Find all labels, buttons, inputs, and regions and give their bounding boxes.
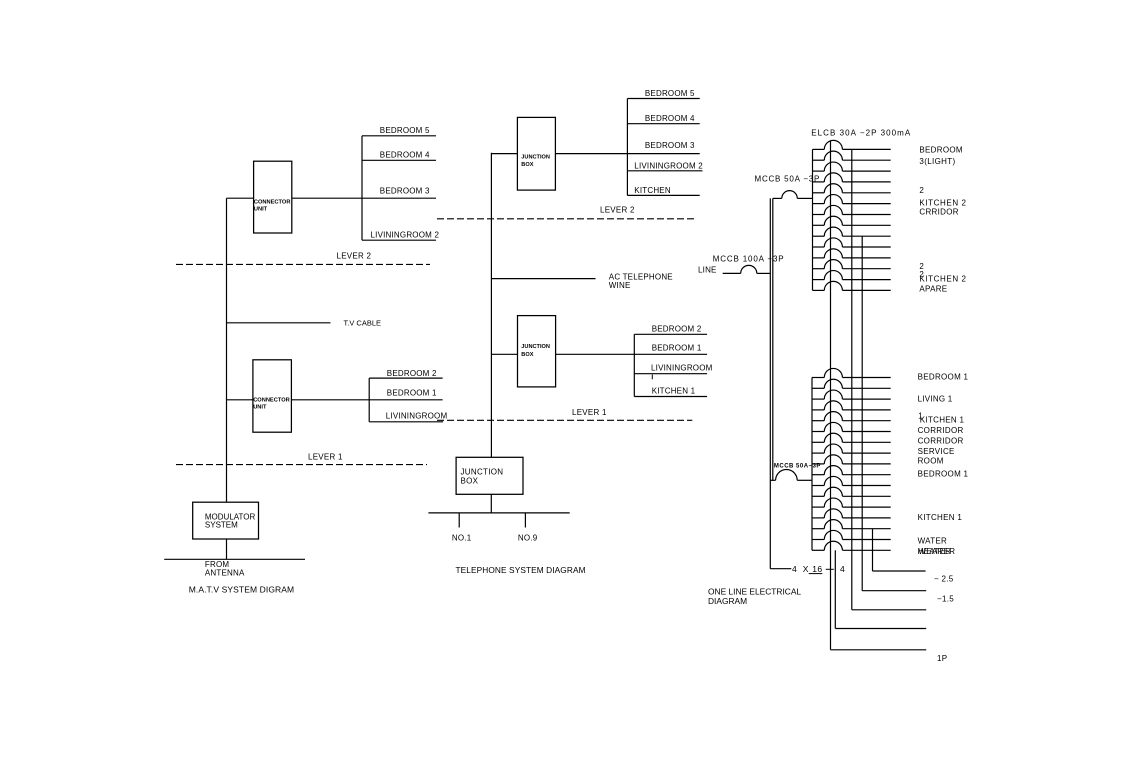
title ONE LINE ELECTRICAL DIAGRAM — [708, 587, 801, 606]
svg-text:1P: 1P — [937, 654, 947, 663]
label FROM ANTENNA — [205, 560, 245, 577]
svg-text:KITCHEN: KITCHEN — [634, 186, 671, 195]
svg-text:NO.1: NO.1 — [452, 534, 472, 543]
wire LIVININGROOM 2 (MATV) — [362, 231, 439, 241]
svg-text:KITCHEN 1: KITCHEN 1 — [918, 513, 963, 522]
wire T.V CABLE tap — [227, 318, 382, 327]
antenna feed line — [164, 558, 305, 560]
svg-text:BEDROOM 4: BEDROOM 4 — [380, 151, 430, 160]
label BEDROOM 1 (second) — [918, 470, 969, 479]
ELCB breaker row U4 — [813, 173, 891, 182]
wire sub-feed v5 — [835, 550, 926, 628]
MCB breaker row L15 — [812, 520, 891, 529]
ELCB breaker row U2 — [813, 151, 891, 160]
wire MATV trunk vertical — [226, 198, 228, 502]
connector unit CU2 — [253, 360, 292, 432]
wire drop NO.9 — [518, 513, 538, 543]
svg-text:ANTENNA: ANTENNA — [205, 568, 245, 577]
telephone distribution bus — [428, 512, 569, 514]
MCB breaker row L8 — [812, 444, 891, 453]
svg-text:BOX: BOX — [521, 162, 533, 168]
main bus riser (double line) — [770, 198, 773, 568]
ELCB breaker row U7 — [813, 205, 891, 214]
svg-text:3(LIGHT): 3(LIGHT) — [919, 157, 955, 166]
wire JB2 to branch bus 2 — [556, 353, 635, 355]
breaker MCCB 50A -3P (upper) — [755, 175, 821, 199]
svg-text:APARE: APARE — [919, 284, 947, 293]
wire sub-feed v2 — [852, 149, 926, 609]
label LINE — [698, 266, 717, 275]
MCB breaker row L14 — [812, 509, 891, 518]
MCB breaker row L7 — [812, 433, 891, 442]
svg-text:BEDROOM 5: BEDROOM 5 — [645, 89, 695, 98]
label - 2.5 — [934, 575, 954, 584]
level line LEVER 2 (TEL) — [437, 206, 697, 219]
svg-text:NO.9: NO.9 — [518, 534, 538, 543]
wire BEDROOM 4 (TEL) — [627, 114, 699, 124]
wire BEDROOM 2 (TEL) — [634, 324, 707, 334]
node MATV branch bus 2 — [368, 378, 370, 422]
MCB breaker row L16 — [812, 530, 891, 539]
svg-text:BEDROOM 2: BEDROOM 2 — [387, 369, 437, 378]
svg-text:LIVININGROOM: LIVININGROOM — [386, 412, 448, 421]
level line LEVER 1 (MATV) — [176, 452, 427, 464]
svg-text:4: 4 — [792, 564, 797, 574]
wire AC TELEPHONE WINE tap — [491, 272, 672, 290]
wire BEDROOM 3 (TEL) — [627, 141, 699, 153]
svg-text:LINE: LINE — [698, 266, 717, 275]
svg-text:M.A.T.V SYSTEM DIGRAM: M.A.T.V SYSTEM DIGRAM — [189, 585, 295, 595]
wire LIVININGROOM 2 (TEL) — [627, 161, 703, 171]
svg-text:BEDROOM 1: BEDROOM 1 — [652, 344, 702, 353]
svg-text:WATER: WATER — [918, 537, 948, 546]
svg-text:AC TELEPHONE: AC TELEPHONE — [609, 272, 673, 281]
svg-text:CORRIDOR: CORRIDOR — [918, 426, 964, 435]
MCB breaker row L11 — [812, 476, 891, 485]
svg-text:LEVER 1: LEVER 1 — [308, 452, 343, 461]
label ELCB 30A -2P 300mA — [811, 128, 911, 137]
junction box JB1 — [517, 117, 555, 190]
svg-text:KITCHEN 2: KITCHEN 2 — [919, 199, 966, 208]
node telephone branch bus 2 — [633, 334, 635, 396]
svg-text:WEARER: WEARER — [918, 547, 955, 556]
svg-text:2: 2 — [919, 186, 924, 195]
cable annotation 4 X 16 - 4 — [770, 564, 845, 574]
svg-text:WINE: WINE — [609, 281, 631, 290]
svg-text:− 2.5: − 2.5 — [934, 575, 954, 584]
label WATER HEATER — [918, 537, 956, 556]
ELCB breaker row U11 — [813, 249, 891, 258]
node telephone branch bus 1 — [626, 99, 628, 196]
MCB breaker row L4 — [812, 401, 891, 410]
wire LIVININGROOM (MATV) — [369, 412, 447, 422]
wire CU1 to branch bus 1 — [292, 197, 362, 199]
title TELEPHONE SYSTEM DIAGRAM — [456, 565, 586, 575]
ELCB breaker row U8 — [813, 216, 891, 225]
wire sub-feed v4 — [873, 529, 926, 571]
svg-text:LIVININGROOM 2: LIVININGROOM 2 — [634, 161, 703, 170]
svg-text:CONNECTOR: CONNECTOR — [253, 398, 290, 404]
wire BEDROOM 5 (MATV) — [362, 126, 436, 136]
MCB breaker row L9 — [812, 455, 891, 464]
wire BEDROOM 1 (TEL) — [634, 344, 707, 355]
svg-text:16: 16 — [812, 564, 822, 574]
MCB breaker row L5 — [812, 412, 891, 421]
svg-text:LEVER 2: LEVER 2 — [600, 206, 635, 215]
svg-text:JUNCTION: JUNCTION — [521, 344, 550, 350]
MCB breaker row L13 — [812, 498, 891, 507]
MCB breaker row L2 — [812, 379, 891, 388]
svg-text:MCCB 100A −3P: MCCB 100A −3P — [713, 255, 785, 264]
svg-text:UNIT: UNIT — [253, 405, 267, 411]
title M.A.T.V SYSTEM DIGRAM — [189, 585, 295, 595]
wire trunk to connector unit CU1 — [227, 197, 254, 199]
label LIVING 1 — [918, 394, 953, 403]
label KITCHEN 1 CORRIDOR SERVICE ROOM — [918, 412, 965, 466]
ELCB breaker row U9 — [813, 227, 891, 236]
svg-text:X: X — [803, 564, 809, 574]
ELCB breaker row U5 — [813, 184, 891, 193]
svg-text:BEDROOM 1: BEDROOM 1 — [918, 372, 969, 381]
MCB breaker row L10 — [812, 466, 891, 475]
wire trunk to connector unit CU2 — [227, 399, 253, 401]
svg-text:JUNCTION: JUNCTION — [521, 155, 550, 161]
wire KITCHEN 1 (TEL) — [634, 387, 707, 397]
label BEDROOM 1 — [918, 372, 969, 381]
svg-text:LIVININGROOM 2: LIVININGROOM 2 — [371, 231, 440, 240]
junction box JB3 (main) — [456, 457, 523, 494]
connector unit CU1 — [254, 161, 292, 233]
label 1P — [937, 654, 947, 663]
svg-text:BOX: BOX — [461, 477, 479, 486]
MCB breaker row L17 — [812, 541, 891, 550]
label -1.5 — [937, 595, 954, 604]
svg-text:CRRIDOR: CRRIDOR — [919, 207, 958, 216]
svg-text:LIVING 1: LIVING 1 — [918, 394, 953, 403]
wire trunk to junction box JB1 — [491, 153, 517, 155]
wire modulator to antenna line — [226, 539, 228, 559]
svg-text:KITCHEN 1: KITCHEN 1 — [920, 415, 965, 424]
label 2 KITCHEN 2 CRRIDOR — [919, 186, 966, 216]
ELCB breaker row U3 — [813, 162, 891, 171]
lower panel input bus — [811, 378, 813, 551]
label KITCHEN 1 — [918, 513, 963, 522]
svg-text:BEDROOM 1: BEDROOM 1 — [387, 388, 437, 397]
svg-text:KITCHEN 1: KITCHEN 1 — [652, 387, 696, 396]
MCB breaker row L12 — [812, 487, 891, 496]
svg-text:SYSTEM: SYSTEM — [205, 521, 238, 530]
svg-text:LEVER 1: LEVER 1 — [572, 408, 607, 417]
wire JB1 to branch bus 1 — [555, 153, 627, 155]
svg-text:MCCB 50A −3P: MCCB 50A −3P — [755, 175, 821, 184]
svg-text:ELCB 30A −2P 300mA: ELCB 30A −2P 300mA — [811, 128, 911, 137]
svg-text:UNIT: UNIT — [254, 206, 268, 212]
ELCB breaker row U6 — [813, 195, 891, 204]
ELCB breaker row U10 — [813, 238, 891, 247]
svg-text:TELEPHONE SYSTEM DIAGRAM: TELEPHONE SYSTEM DIAGRAM — [456, 565, 586, 575]
svg-text:ROOM: ROOM — [918, 456, 944, 465]
ELCB breaker row U12 — [813, 260, 891, 269]
svg-text:T.V CABLE: T.V CABLE — [344, 318, 382, 327]
ELCB breaker row U14 — [813, 281, 891, 290]
wire BEDROOM 4 (MATV) — [362, 151, 436, 161]
label BEDROOM 3(LIGHT) — [919, 145, 962, 166]
modulator system box U1 — [193, 502, 259, 539]
MCB breaker row L1 — [812, 368, 891, 377]
svg-text:DIAGRAM: DIAGRAM — [708, 596, 747, 606]
wire sub-feed v3 — [862, 236, 926, 591]
wire BEDROOM 3 (MATV) — [362, 186, 436, 198]
wire drop NO.1 — [452, 513, 472, 543]
wire BEDROOM 2 (MATV) — [369, 369, 442, 378]
ELCB breaker row U1 — [813, 140, 891, 149]
wire trunk to junction box JB2 — [491, 353, 517, 355]
svg-text:BEDROOM 3: BEDROOM 3 — [380, 186, 430, 195]
wire telephone trunk vertical — [490, 153, 492, 458]
wire LIVININGROOM (TEL) — [634, 363, 712, 379]
MCB breaker row L6 — [812, 422, 891, 431]
svg-text:BOX: BOX — [521, 352, 533, 358]
wire CU2 to branch bus 2 — [291, 399, 369, 401]
svg-text:LEVER 2: LEVER 2 — [337, 252, 372, 261]
svg-text:4: 4 — [840, 564, 845, 574]
level line LEVER 2 (MATV) — [176, 252, 430, 265]
svg-text:SERVICE: SERVICE — [918, 447, 955, 456]
wire BEDROOM 5 (TEL) — [627, 89, 699, 98]
svg-text:BEDROOM 2: BEDROOM 2 — [652, 324, 702, 333]
junction box JB2 — [518, 316, 556, 387]
svg-text:LIVININGROOM: LIVININGROOM — [651, 363, 713, 372]
MCB breaker row L3 — [812, 390, 891, 399]
svg-text:KITCHEN 2: KITCHEN 2 — [919, 274, 966, 283]
node MATV branch bus 1 — [361, 136, 363, 240]
upper panel input bus — [812, 149, 814, 290]
wire KITCHEN (TEL) — [627, 186, 699, 195]
wire JB3 to distribution bus — [490, 494, 492, 513]
svg-text:BEDROOM: BEDROOM — [919, 145, 962, 154]
ELCB breaker row U13 — [813, 271, 891, 280]
breaker MCCB 100A -3P — [713, 255, 785, 274]
svg-text:BEDROOM 5: BEDROOM 5 — [380, 126, 430, 135]
svg-text:CORRIDOR: CORRIDOR — [918, 437, 964, 446]
label 2 KITCHEN 2 APARE — [919, 262, 966, 294]
svg-text:CONNECTOR: CONNECTOR — [254, 199, 291, 205]
svg-text:JUNCTION: JUNCTION — [461, 467, 504, 476]
level line LEVER 1 (TEL) — [437, 408, 692, 420]
wire feed riser v1 through ELCB column — [831, 140, 927, 649]
svg-text:−1.5: −1.5 — [937, 595, 954, 604]
wire BEDROOM 1 (MATV) — [369, 388, 442, 399]
svg-text:BEDROOM 1: BEDROOM 1 — [918, 470, 969, 479]
breaker MCCB 50A-3P (lower) — [770, 464, 821, 481]
svg-text:BEDROOM 3: BEDROOM 3 — [645, 141, 695, 150]
svg-text:BEDROOM 4: BEDROOM 4 — [645, 114, 695, 123]
